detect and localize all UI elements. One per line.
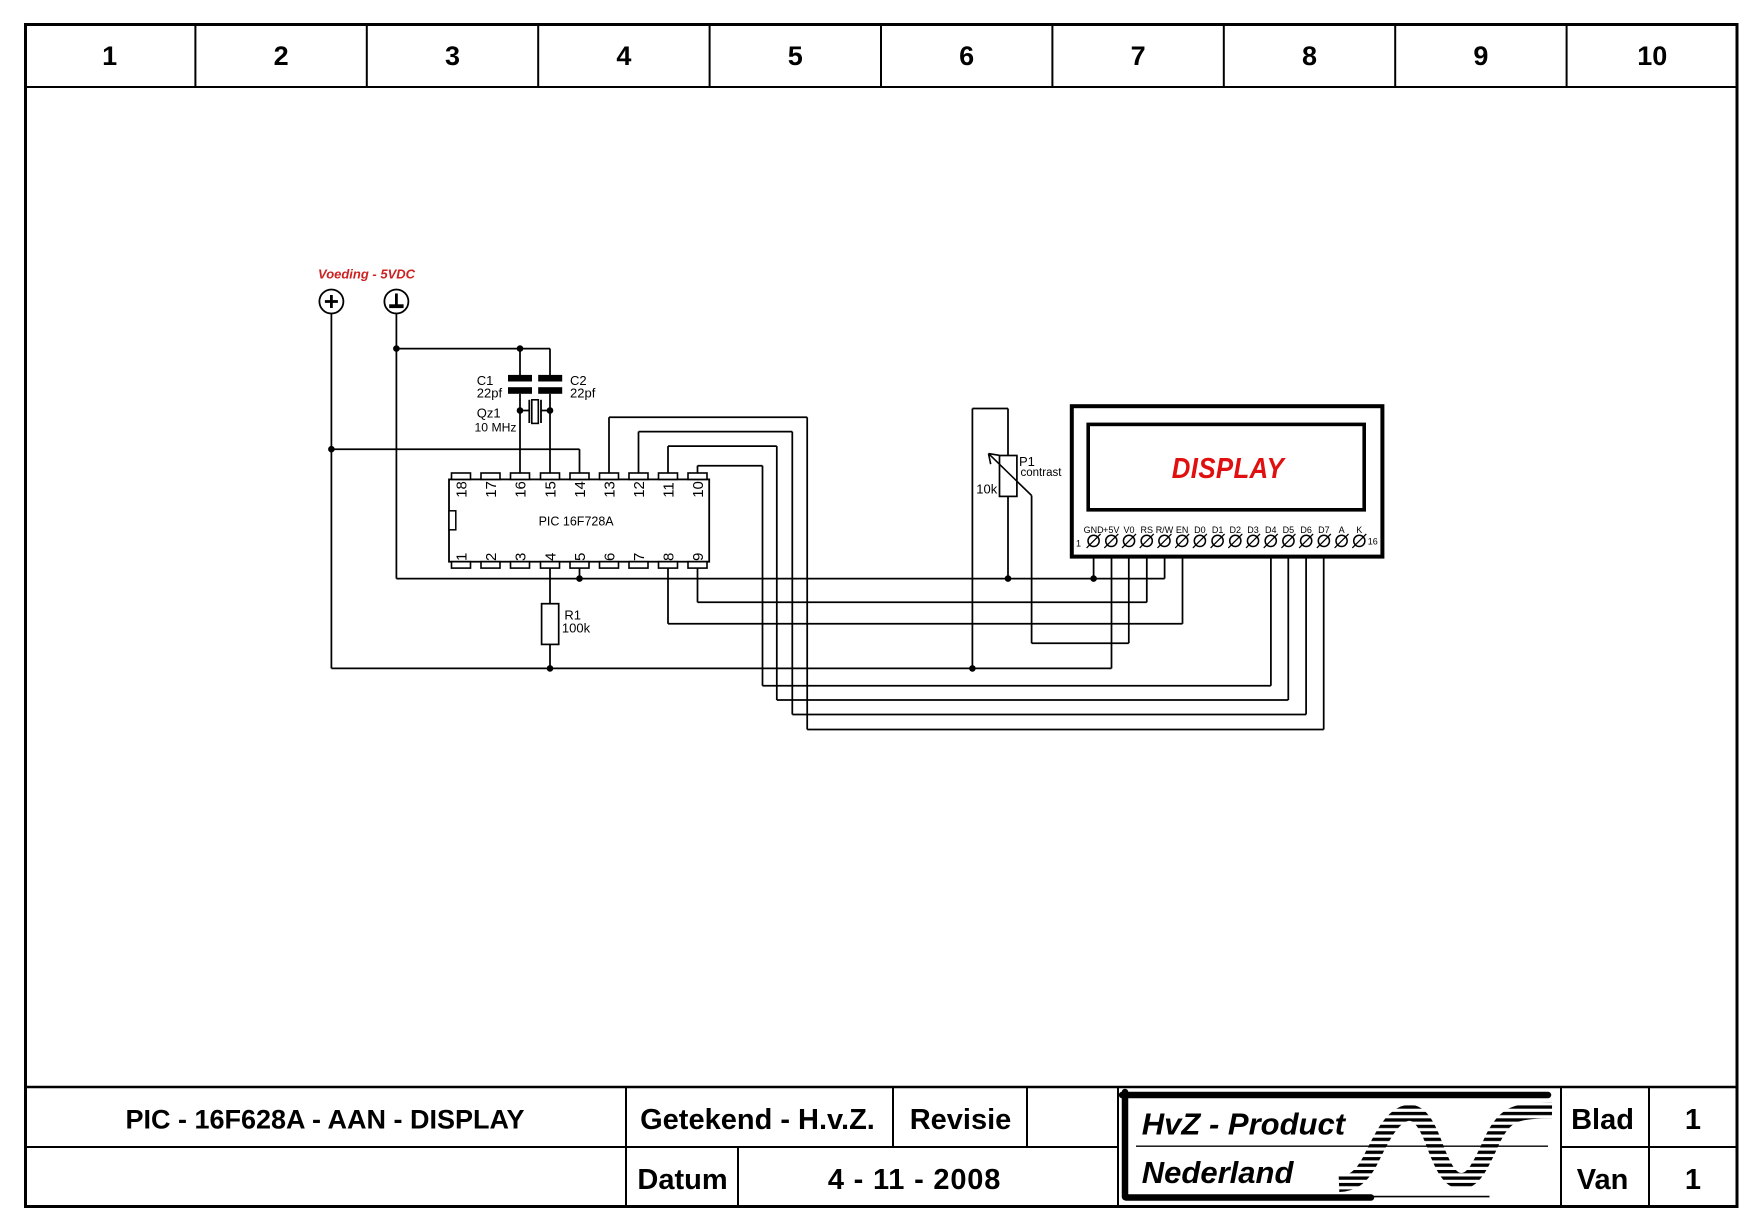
wire pin10 to D4 rail [763,685,1271,687]
display pin 6 (EN) [1175,534,1189,548]
svg-text:Van: Van [1577,1164,1629,1196]
IC U1 PIC 16F728A body [449,479,709,561]
wire pin11 up [667,446,669,473]
svg-text:Qz1: Qz1 [477,406,501,421]
header divider 2 [366,23,368,87]
svg-text:16: 16 [512,481,529,498]
wire crystal left lead [520,410,529,412]
svg-text:3: 3 [445,41,460,71]
wire pin14 drop [579,449,581,473]
svg-text:4 - 11 - 2008: 4 - 11 - 2008 [828,1164,1001,1196]
wire pin13 top rail [609,416,807,418]
svg-text:16: 16 [1368,536,1378,546]
capacitor C1 [508,375,532,382]
wire R1 to +5V rail [549,644,551,668]
header divider 8 [1394,23,1396,87]
display pin 15 (A) [1335,534,1349,548]
svg-text:R/W: R/W [1156,525,1174,535]
wire pin13 to D7 rail [807,729,1323,731]
svg-text:D2: D2 [1230,525,1242,535]
wire pot branch vertical [971,409,973,669]
wire pin8 drop [667,568,669,624]
svg-text:Nederland: Nederland [1142,1155,1295,1190]
header divider 9 [1566,23,1568,87]
display pin 9 (D2) [1228,534,1242,548]
pin 17 box [481,473,500,479]
svg-text:4: 4 [542,553,559,561]
display screen text DISPLAY [1172,451,1287,484]
title block divider x=738 (Datum cell) [737,1147,739,1207]
wire pin12 drop [791,432,793,715]
svg-text:1: 1 [1076,538,1081,548]
wire wiper to V0 rail [1032,642,1129,644]
pin 15 number [542,481,559,498]
svg-text:Datum: Datum [637,1164,727,1196]
pin 6 number [601,553,618,561]
wire pin11 top rail [668,445,777,447]
wire pin5 to ground rail [579,568,581,579]
wire D6 riser [1305,547,1307,715]
wire ground rail [396,578,1164,580]
svg-text:K: K [1356,525,1362,535]
pin 12 number [631,481,648,498]
pin 11 box [659,473,678,479]
svg-text:6: 6 [601,553,618,561]
pin 18 box [452,473,471,479]
junction pot bottom ground [1005,575,1012,582]
svg-text:Voeding - 5VDC: Voeding - 5VDC [318,267,416,282]
svg-text:Getekend - H.v.Z.: Getekend - H.v.Z. [640,1104,875,1136]
svg-text:1: 1 [453,553,470,561]
ground terminal [384,290,408,314]
title block top line [24,1086,1738,1089]
title block divider x=1118 [1117,1087,1119,1207]
wire +5V to pin14 horizontal [331,448,579,450]
junction C1 top [517,345,524,352]
pin 14 box [570,473,589,479]
svg-text:A: A [1339,525,1345,535]
svg-text:3: 3 [512,553,529,561]
pin 7 box [629,562,648,568]
pin 9 number [690,553,707,561]
svg-text:PIC 16F728A: PIC 16F728A [539,514,615,528]
capacitor C2 [538,375,562,382]
wire pin12 to D6 rail [792,714,1306,716]
title block divider x=1649 [1648,1087,1650,1207]
svg-text:5: 5 [572,553,589,561]
svg-text:14: 14 [572,481,589,498]
wire EN riser [1182,547,1184,624]
svg-text:Revisie: Revisie [910,1104,1012,1136]
display pin 1 (GND) [1087,534,1101,548]
svg-text:D3: D3 [1247,525,1259,535]
pin 5 box [570,562,589,568]
pin 13 number [601,481,618,498]
svg-text:RS: RS [1140,525,1153,535]
display pin 12 (D5) [1281,534,1295,548]
pin 2 number [483,553,500,561]
svg-text:D4: D4 [1265,525,1277,535]
pin 9 box [688,562,707,568]
logo wave (striped N) [1339,1110,1552,1184]
pin 7 number [631,553,648,561]
svg-text:18: 18 [453,481,470,498]
svg-text:D1: D1 [1212,525,1224,535]
display pin 7 (D0) [1193,534,1207,548]
wire pin10 up [697,466,699,473]
logo baseline swoosh [1371,1196,1490,1198]
title block divider x=1561 [1560,1087,1562,1207]
pin 14 number [572,481,589,498]
wire C2 bottom lead to pin15 [549,394,551,473]
title block middle line left [24,1146,1118,1148]
svg-text:10 MHz: 10 MHz [475,420,517,434]
display pin 4 (RS) [1140,534,1154,548]
pin 8 number [660,553,677,561]
wire V0 riser [1128,547,1130,644]
wire GND pin drop [1093,547,1095,579]
header divider 5 [880,23,882,87]
svg-text:PIC - 16F628A - AAN - DISPLAY: PIC - 16F628A - AAN - DISPLAY [125,1105,524,1135]
wire pin8 to EN rail [668,623,1183,625]
wire crystal right lead [541,410,550,412]
display pin 14 (D7) [1317,534,1331,548]
wire pot branch horizontal [972,408,1008,410]
wire pin10 top rail [698,465,763,467]
svg-text:D6: D6 [1300,525,1312,535]
wire D4 riser [1270,547,1272,686]
display pin 16 (K) [1352,534,1366,548]
wire RS riser [1146,547,1148,603]
svg-text:22pf: 22pf [477,386,503,401]
svg-text:GND: GND [1084,525,1105,535]
logo box thick bottom border [1126,1194,1371,1201]
svg-text:8: 8 [660,553,677,561]
svg-text:10: 10 [690,481,707,498]
svg-text:4: 4 [616,41,631,71]
svg-text:7: 7 [1131,41,1146,71]
svg-text:10: 10 [1637,41,1667,71]
svg-text:1: 1 [1685,1164,1701,1196]
wire R/W riser [1164,547,1166,579]
header divider 3 [537,23,539,87]
resistor R1 [542,604,559,645]
potentiometer P1 wiper arrow [989,454,1032,496]
header divider 4 [709,23,711,87]
display pin 13 (D6) [1299,534,1313,548]
display pin 10 (D3) [1246,534,1260,548]
junction ground/osc rail [393,345,400,352]
title block divider x=1027 [1026,1087,1028,1147]
svg-text:EN: EN [1176,525,1189,535]
wire pin12 up [638,432,640,473]
junction pin5 ground [576,575,583,582]
svg-text:12: 12 [631,481,648,498]
wire pin9 drop [697,568,699,602]
svg-text:11: 11 [660,482,677,498]
potentiometer P1 body [1000,456,1017,497]
display screen [1088,424,1364,509]
pin 1 box [452,562,471,568]
svg-text:10k: 10k [976,482,997,497]
svg-text:17: 17 [483,481,500,498]
display pin 11 (D4) [1264,534,1278,548]
svg-text:HvZ - Product: HvZ - Product [1142,1106,1347,1141]
svg-text:15: 15 [542,481,559,498]
wire pot top lead [1007,409,1009,456]
wire +5V vertical [330,313,332,668]
wire C1 top lead [519,349,521,375]
title block divider x=893 [892,1087,894,1147]
pin 13 box [600,473,619,479]
wire pot bottom lead [1007,496,1009,578]
display pin 3 (V0) [1122,534,1136,548]
svg-text:7: 7 [631,553,648,561]
svg-text:D5: D5 [1283,525,1295,535]
pin 17 number [483,481,500,498]
svg-text:22pf: 22pf [570,386,596,401]
pin 6 box [600,562,619,568]
junction crystal right [547,407,554,414]
wire D7 riser [1323,547,1325,730]
svg-text:contrast: contrast [1021,467,1063,479]
pin 3 number [512,553,529,561]
pin 15 box [541,473,560,479]
svg-text:+5V: +5V [1103,525,1119,535]
svg-text:D0: D0 [1194,525,1206,535]
svg-text:8: 8 [1302,41,1317,71]
pin 10 box [688,473,707,479]
svg-text:9: 9 [690,553,707,561]
pin 4 box [541,562,560,568]
wire C2 top lead [549,349,551,375]
wire ground vertical [395,313,397,578]
logo box thick left border [1122,1092,1129,1197]
header row bottom line [24,86,1738,88]
pin 10 number [690,481,707,498]
svg-text:6: 6 [959,41,974,71]
junction pot branch +5V rail [969,665,976,672]
junction +5V/pin14 [328,446,335,453]
wire pin12 top rail [639,431,793,433]
logo divider thin line [1136,1145,1548,1147]
display pin 2 (+5V) [1104,534,1118,548]
pin 18 number [453,481,470,498]
crystal Qz1 [529,400,541,424]
wire pin10 drop [762,466,764,686]
logo box thick top border [1122,1092,1548,1099]
header divider 6 [1051,23,1053,87]
svg-text:1: 1 [1685,1104,1701,1136]
wire C1 bottom lead to pin16 [519,394,521,473]
pin 8 box [659,562,678,568]
svg-text:13: 13 [601,481,618,498]
svg-text:9: 9 [1473,41,1488,71]
wire pin13 drop [806,417,808,729]
svg-text:Blad: Blad [1571,1104,1634,1136]
svg-text:DISPLAY: DISPLAY [1172,451,1287,484]
title block divider x=626 [625,1087,627,1207]
display pin 8 (D1) [1211,534,1225,548]
display module outline [1072,406,1383,556]
svg-text:100k: 100k [562,620,591,635]
svg-text:V0: V0 [1124,525,1135,535]
pin 16 box [511,473,530,479]
display pin 5 (R/W) [1157,534,1171,548]
header divider 1 [194,23,196,87]
pin 5 number [572,553,589,561]
pin 4 number [542,553,559,561]
wire +5V bottom rail [331,667,1111,669]
wire +5V riser to display [1111,547,1113,669]
svg-text:2: 2 [274,41,289,71]
junction GND pin ground [1090,575,1097,582]
svg-text:5: 5 [788,41,803,71]
pin 2 box [481,562,500,568]
pin 3 box [511,562,530,568]
wire oscillator top rail [396,348,550,350]
svg-text:2: 2 [483,553,500,561]
wire pin11 to D5 rail [777,699,1289,701]
pin 16 number [512,481,529,498]
wire pin13 up [608,417,610,473]
junction R1 +5V rail [547,665,554,672]
junction crystal left [517,407,524,414]
wire pin11 drop [776,446,778,700]
+5V supply terminal [319,290,343,314]
pin 1 number [453,553,470,561]
svg-text:1: 1 [102,41,117,71]
wire pin4 to R1 [549,568,551,604]
title block middle line right [1561,1146,1738,1148]
svg-text:D7: D7 [1318,525,1330,535]
pin 12 box [629,473,648,479]
pin 11 number [660,482,677,498]
wire pin9 to RS rail [698,601,1147,603]
header divider 7 [1223,23,1225,87]
IC notch [449,511,456,530]
wire pot wiper vertical [1031,496,1033,644]
wire D5 riser [1287,547,1289,701]
